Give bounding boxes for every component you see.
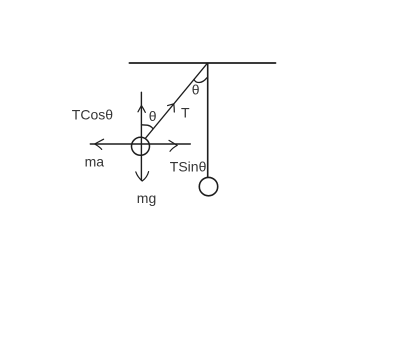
svg-text:mg: mg [137, 190, 156, 206]
svg-text:T: T [181, 105, 190, 121]
svg-text:ma: ma [85, 154, 105, 170]
svg-text:TSinθ: TSinθ [170, 158, 207, 174]
svg-text:θ: θ [149, 108, 157, 124]
svg-text:TCosθ: TCosθ [72, 106, 113, 122]
svg-text:θ: θ [192, 82, 200, 98]
